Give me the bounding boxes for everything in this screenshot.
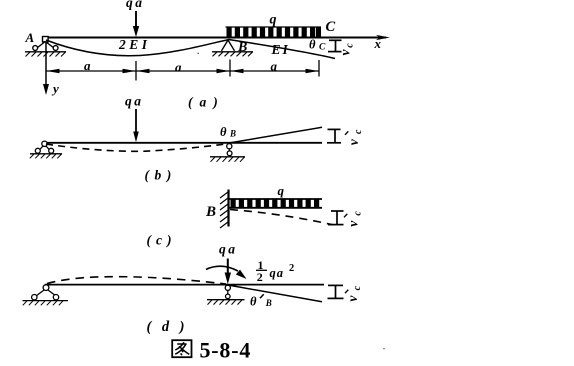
svg-text:C: C: [326, 19, 336, 35]
svg-text:y: y: [51, 81, 59, 96]
svg-text:a: a: [271, 59, 278, 74]
svg-text:B: B: [205, 204, 216, 220]
svg-text:v: v: [346, 220, 361, 227]
svg-text:B: B: [237, 40, 247, 55]
svg-text:θ: θ: [309, 38, 316, 52]
svg-text:qa: qa: [126, 0, 145, 10]
svg-text:2: 2: [289, 263, 294, 274]
svg-text:c: c: [352, 211, 363, 216]
svg-text:θ: θ: [220, 125, 227, 139]
svg-text:C: C: [319, 43, 326, 53]
svg-text:(c): (c): [147, 233, 177, 248]
svg-text:x: x: [374, 36, 382, 51]
svg-text:v: v: [346, 138, 361, 145]
svg-text:qa: qa: [270, 266, 285, 280]
svg-text:v: v: [345, 295, 360, 302]
svg-text:c: c: [352, 285, 363, 290]
svg-text:(a): (a): [188, 95, 225, 110]
svg-text:c: c: [353, 129, 364, 134]
svg-text:A: A: [25, 30, 35, 45]
svg-text:v: v: [338, 49, 353, 56]
svg-text:qa: qa: [125, 94, 144, 109]
svg-text:q: q: [278, 183, 285, 198]
svg-text:(b): (b): [145, 168, 177, 183]
svg-text:a: a: [84, 58, 91, 73]
svg-text:2EI: 2EI: [118, 37, 151, 52]
svg-text:B: B: [265, 298, 272, 308]
svg-text:q: q: [270, 13, 277, 28]
svg-text:(d): (d): [147, 319, 195, 335]
svg-text:a: a: [175, 60, 182, 75]
svg-text:5-8-4: 5-8-4: [200, 338, 252, 363]
svg-text:B: B: [229, 129, 236, 139]
svg-text:qa: qa: [219, 242, 238, 257]
svg-text:θ: θ: [250, 295, 257, 309]
svg-text:2: 2: [257, 270, 263, 284]
svg-text:c: c: [345, 43, 356, 48]
